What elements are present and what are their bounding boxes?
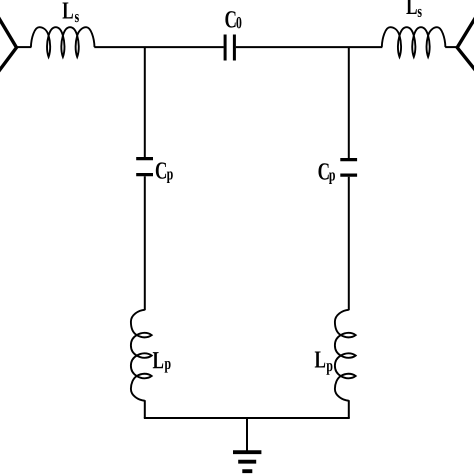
wire right branch upper (node B down to Cp right) — [348, 47, 350, 158]
wire left branch middle (Cp left down to Lp left) — [144, 176, 146, 310]
wire ground stub — [246, 418, 248, 452]
port P2 (right output port triangle) — [457, 17, 474, 71]
label Ls (right inductor value) — [406, 0, 421, 17]
wire bottom rail — [144, 417, 350, 419]
label Cp (right shunt capacitor value) — [318, 163, 335, 184]
capacitor Cp (right shunt, horizontal plates) — [340, 160, 357, 176]
inductor Ls (left series) — [31, 27, 95, 57]
label C0 (series capacitor value) — [225, 11, 241, 28]
inductor Ls (right series) — [382, 27, 446, 57]
port P1 (left input port triangle) — [0, 17, 17, 73]
wire from Ls left to C0 left plate — [94, 46, 223, 48]
label Cp (left shunt capacitor value) — [156, 162, 173, 183]
wire left branch lower (Lp left down to bottom rail) — [144, 400, 146, 418]
wire from port P1 to Ls left — [16, 46, 32, 48]
inductor Lp (right shunt) — [335, 310, 356, 401]
label Lp (right shunt inductor value) — [315, 351, 333, 374]
wire right branch middle (Cp right down to Lp right) — [348, 177, 350, 311]
label Lp (left shunt inductor value) — [153, 352, 171, 372]
ground symbol — [233, 452, 261, 471]
label Ls (left inductor value) — [63, 2, 79, 22]
wire left branch upper (node A down to Cp left) — [144, 47, 146, 157]
capacitor C0 (series, two vertical plates) — [225, 35, 234, 61]
wire from Ls right to port P2 — [445, 46, 458, 48]
wire right branch lower (Lp right down to bottom rail) — [348, 400, 350, 418]
inductor Lp (left shunt) — [131, 310, 152, 401]
capacitor Cp (left shunt, horizontal plates) — [136, 159, 153, 175]
wire from C0 right plate to Ls right — [236, 46, 382, 48]
